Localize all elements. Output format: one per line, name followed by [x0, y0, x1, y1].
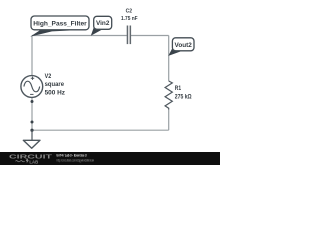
- capacitor C2: [121, 8, 138, 44]
- wire bottom horizontal: [32, 129, 169, 131]
- voltage source V2: [21, 74, 65, 98]
- wire left vertical lower (V2 bottom terminal to bottom corner): [31, 97, 33, 130]
- wire top segment left (corner to C2 left plate): [32, 35, 127, 37]
- net flag High_Pass_Filter: [30, 16, 89, 37]
- wire right vertical upper (top-right corner to R1 top): [168, 36, 170, 82]
- svg-text:V2: V2: [45, 74, 52, 80]
- svg-text:High_Pass_Filter: High_Pass_Filter: [33, 20, 87, 27]
- svg-text:Vout2: Vout2: [175, 42, 193, 49]
- wire right vertical lower (R1 bottom to bottom corner): [168, 110, 170, 131]
- junction node dot (bottom-left corner): [30, 129, 33, 132]
- junction node dot (V2 bottom terminal): [31, 100, 34, 103]
- net flag Vin2: [91, 16, 112, 35]
- svg-text:http://circuitlab.com/c6qg4rw3: http://circuitlab.com/c6qg4rw38kbndw: [57, 158, 95, 162]
- svg-text:C2: C2: [126, 8, 132, 14]
- wire top segment right (C2 right plate to top-right corner): [131, 35, 169, 37]
- svg-text:1.75 nF: 1.75 nF: [121, 16, 138, 22]
- svg-text:square: square: [45, 82, 65, 88]
- wire left vertical upper (corner to V2 top terminal): [31, 36, 33, 76]
- svg-text:tnr74 / Lab 3 - Exercise 3: tnr74 / Lab 3 - Exercise 3: [57, 153, 87, 158]
- svg-text:LAB: LAB: [29, 159, 38, 165]
- footer bar: [0, 152, 220, 165]
- resistor R1: [165, 81, 192, 110]
- svg-text:R1: R1: [175, 86, 182, 92]
- svg-text:Vin2: Vin2: [96, 20, 110, 27]
- junction node dot (ground terminal): [31, 121, 34, 124]
- svg-text:500 Hz: 500 Hz: [45, 91, 65, 97]
- ground: [23, 130, 40, 148]
- svg-text:275 kΩ: 275 kΩ: [175, 95, 192, 101]
- net flag Vout2: [168, 38, 194, 56]
